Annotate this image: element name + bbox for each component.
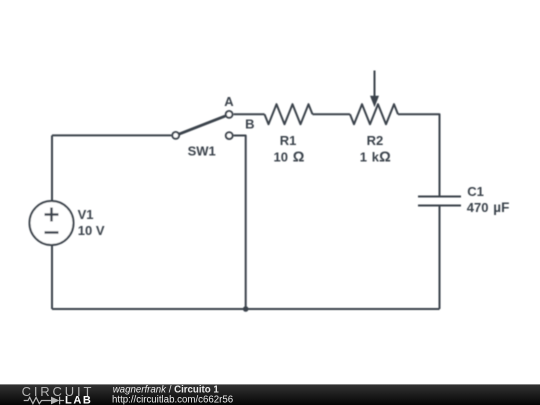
svg-text:A: A [224, 94, 234, 109]
voltage source V1 plus sign [45, 208, 59, 222]
resistor R1 [265, 104, 313, 124]
potentiometer R2 wiper arrow [370, 71, 379, 108]
svg-text:B: B [245, 117, 254, 132]
switch terminal node A [226, 111, 233, 118]
voltage source V1 circle [30, 201, 74, 245]
wire top-left horizontal [52, 134, 171, 136]
svg-text:LAB: LAB [65, 395, 92, 405]
svg-text:R1: R1 [280, 133, 297, 148]
wire node B to bottom [234, 136, 246, 310]
svg-text:http://circuitlab.com/c662r56: http://circuitlab.com/c662r56 [112, 395, 233, 405]
svg-text:V1: V1 [78, 207, 94, 222]
switch SW1 pivot terminal [172, 132, 179, 139]
svg-text:C1: C1 [467, 184, 484, 199]
junction dot [243, 306, 249, 312]
switch SW1 lever [180, 116, 225, 134]
voltage source V1 minus sign [45, 231, 59, 233]
wire capacitor bottom to bottom wire [439, 206, 441, 310]
CircuitLab logo resistor-diode symbol [24, 397, 64, 405]
wire node A to R1 [234, 113, 265, 115]
svg-text:SW1: SW1 [188, 143, 216, 158]
capacitor C1 plates [418, 197, 461, 206]
wire left vertical (top of V1) [51, 135, 53, 201]
svg-text:10 V: 10 V [78, 223, 105, 238]
svg-text:R2: R2 [367, 133, 384, 148]
switch terminal node B [226, 132, 233, 139]
wire R1 to R2 [313, 113, 351, 115]
svg-text:1kΩ: 1kΩ [360, 149, 391, 165]
potentiometer R2 [350, 104, 398, 124]
wire bottom horizontal [52, 308, 440, 310]
wire R2 to top-right corner [398, 114, 440, 196]
svg-text:470µF: 470µF [467, 200, 510, 215]
wire left vertical (bottom of V1) [51, 245, 53, 309]
